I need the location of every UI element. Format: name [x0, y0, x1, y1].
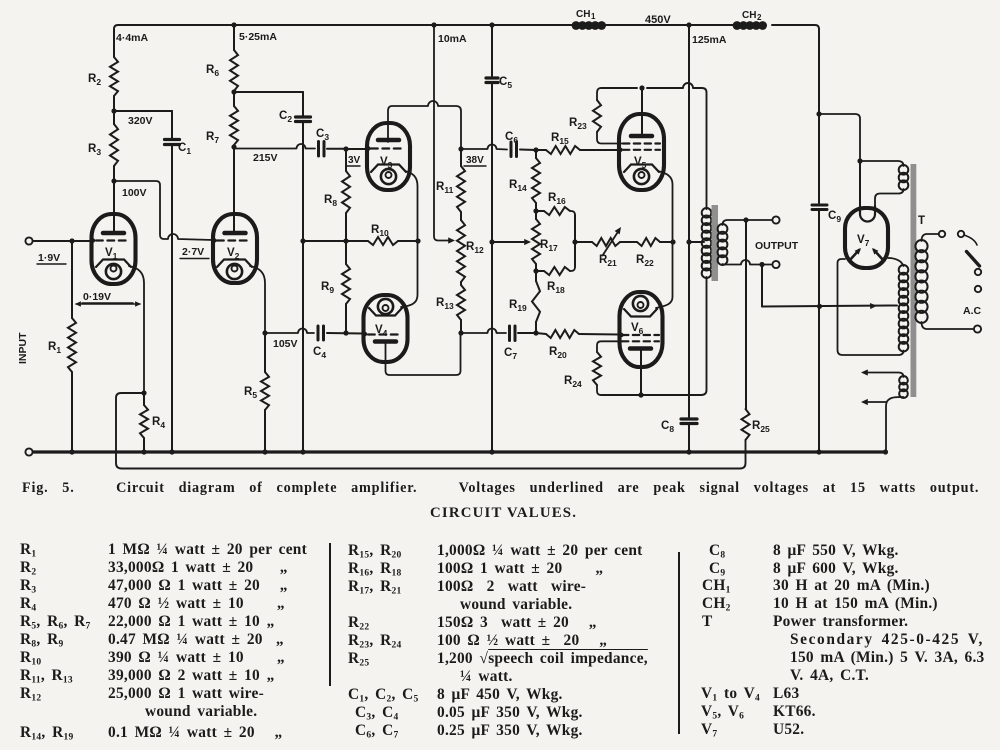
svg-text:1·9V: 1·9V	[38, 252, 60, 264]
svg-text:R21: R21	[599, 254, 617, 268]
transformer OPT primary winding	[702, 208, 712, 278]
wire V3 cathode to common node	[405, 171, 418, 241]
resistor R24 (screen stopper)	[564, 341, 622, 395]
node 100V junction	[111, 178, 146, 199]
svg-text:38V: 38V	[466, 155, 484, 166]
switch contact a	[939, 231, 945, 237]
transformer T label	[918, 215, 925, 227]
svg-text:CH: CH	[576, 9, 590, 20]
wire bias network to R21	[572, 215, 592, 267]
svg-text:5·25mA: 5·25mA	[239, 31, 277, 43]
transformer OPT core	[712, 205, 719, 281]
tube V6 screen grid	[622, 340, 659, 342]
tube V2 envelope	[213, 214, 257, 283]
wire V7 left anode to HV winding bottom	[838, 259, 904, 355]
wire V4 cathode to common node	[401, 241, 418, 307]
tube V4 label	[375, 324, 388, 338]
resistor R5	[244, 333, 269, 452]
resistor R7	[206, 106, 238, 147]
svg-text:R20: R20	[549, 346, 567, 360]
svg-text:10mA: 10mA	[438, 33, 467, 45]
wire V1 anode to 100V node	[113, 181, 115, 231]
transformer T 5V rectifier winding	[899, 165, 909, 190]
resistor R8	[324, 149, 350, 241]
resistor R11	[436, 146, 465, 212]
node V4 anode junction	[458, 330, 463, 335]
svg-text:C8: C8	[661, 420, 674, 434]
resistor R18	[536, 267, 575, 295]
label INPUT	[17, 332, 29, 364]
wire 100V node to V2 grid (direct coupling, hops C1 line)	[114, 181, 213, 240]
svg-text:C2: C2	[279, 110, 292, 124]
svg-text:R11: R11	[436, 181, 454, 195]
svg-text:R16: R16	[548, 192, 566, 206]
tube V2 anode	[225, 231, 246, 236]
svg-text:1: 1	[591, 12, 596, 21]
resistor R1	[48, 241, 76, 452]
transformer T core	[911, 164, 917, 397]
resistor R4	[140, 390, 165, 452]
node 38V label	[464, 155, 486, 166]
svg-text:A.C: A.C	[963, 305, 982, 317]
wire 10mA HT feed to R12 wiper	[431, 22, 467, 243]
tube V5 cathode	[624, 165, 659, 185]
svg-text:R1: R1	[48, 341, 61, 355]
label OUTPUT	[755, 240, 799, 252]
wire 450V to output transformer centre tap	[686, 22, 726, 417]
wire V4 anode loop to R13 node	[386, 333, 461, 375]
node 105V junction	[262, 330, 297, 350]
node 1.9V label	[37, 252, 66, 264]
svg-text:C5: C5	[499, 76, 512, 90]
svg-text:105V: 105V	[273, 338, 298, 350]
tube V3 anode	[378, 138, 399, 143]
transformer OPT secondary winding	[718, 224, 728, 265]
input terminal lower	[25, 448, 32, 455]
tube V7 anodes	[849, 248, 884, 261]
resistor R10	[303, 224, 418, 245]
svg-text:CH: CH	[742, 10, 756, 21]
tube V2 grid	[212, 238, 251, 242]
node 320V junction	[111, 108, 152, 127]
node R9 to V4 grid junction	[343, 330, 348, 335]
svg-text:R15: R15	[551, 132, 569, 146]
resistor R9	[321, 241, 350, 333]
output terminal top	[772, 216, 779, 223]
capacitor C9	[812, 114, 841, 452]
wire V7 right anode to HV winding top	[888, 258, 904, 266]
svg-text:R5: R5	[244, 386, 257, 400]
resistor R19	[509, 271, 540, 333]
label A.C	[963, 305, 982, 317]
tube V1 grid	[91, 238, 130, 242]
wire feedback return to V1 cathode network	[116, 393, 746, 469]
node R6-R7 junction	[231, 89, 236, 106]
svg-text:V7: V7	[857, 234, 870, 248]
svg-text:R23: R23	[569, 117, 587, 131]
resistor R15	[536, 132, 619, 154]
transformer T heater winding	[899, 376, 908, 398]
svg-text:R9: R9	[321, 281, 334, 295]
svg-text:R13: R13	[436, 297, 454, 311]
svg-text:R2: R2	[88, 73, 101, 87]
svg-text:R3: R3	[88, 143, 101, 157]
wire heater winding lead bottom	[861, 397, 904, 452]
svg-text:R14: R14	[509, 179, 527, 193]
resistor R12 (wirewound variable)	[457, 212, 484, 282]
resistor R13	[436, 282, 465, 333]
wire primary to mains switch	[922, 234, 939, 241]
node cathode bias junction	[670, 239, 675, 244]
tube V6 control grid	[619, 333, 659, 337]
tube V3 cathode	[371, 165, 406, 185]
choke CH1	[572, 9, 606, 30]
svg-text:215V: 215V	[253, 152, 278, 164]
resistor R23 (screen stopper)	[569, 88, 622, 144]
tube V6 anode	[630, 346, 651, 351]
resistor R17 (hum balance variable)	[532, 208, 558, 273]
wire V6 cathode to common cathode line	[656, 242, 673, 308]
wire switch lead	[964, 235, 977, 245]
wire V2 cathode to 105V node	[250, 266, 265, 333]
svg-text:450V: 450V	[645, 14, 671, 26]
tube V1 envelope	[92, 214, 136, 284]
tube V7 envelope (rectifier)	[845, 208, 888, 268]
terminal AC input	[974, 325, 981, 332]
resistor R3	[88, 111, 118, 181]
choke CH2	[733, 10, 767, 30]
wire secondary to output terminal top	[723, 217, 773, 225]
svg-text:C1: C1	[178, 142, 191, 156]
wire HT to 5V winding	[819, 114, 904, 166]
capacitor C2	[234, 92, 311, 452]
svg-text:C9: C9	[828, 210, 841, 224]
wire R6 top with 5.25mA label	[234, 25, 277, 50]
wire ground return rail	[33, 449, 888, 454]
wire mains primary bottom to AC terminal	[922, 322, 974, 329]
resistor R2	[88, 57, 118, 111]
resistor R25 (feedback)	[742, 409, 771, 440]
tube V1 anode	[103, 231, 124, 236]
wire V1 cathode to R4	[129, 266, 144, 393]
transformer T HV secondary winding	[899, 265, 909, 352]
capacitor C3	[234, 128, 346, 156]
svg-text:2·7V: 2·7V	[182, 246, 204, 258]
wire 5V winding to V7 filament	[860, 161, 904, 214]
tube V1 cathode	[96, 260, 131, 280]
resistor R6	[206, 50, 238, 91]
resistor R21 (variable)	[592, 227, 621, 268]
transformer T mains primary winding	[915, 240, 927, 323]
svg-text:C3: C3	[316, 128, 329, 142]
tube V3 envelope	[367, 123, 410, 190]
input terminal	[25, 237, 92, 244]
svg-text:R18: R18	[547, 281, 565, 295]
svg-text:V4: V4	[375, 324, 388, 338]
svg-text:R17: R17	[540, 239, 558, 253]
svg-text:125mA: 125mA	[692, 34, 727, 46]
tube V2 cathode	[217, 260, 252, 280]
node 0.19V annotation	[75, 291, 141, 307]
svg-text:320V: 320V	[128, 115, 153, 127]
svg-text:2: 2	[757, 13, 762, 22]
switch terminal c	[975, 269, 981, 275]
tube V4 anode	[375, 339, 396, 344]
svg-text:R7: R7	[206, 131, 219, 145]
wire output common to HV centre tap	[762, 265, 897, 310]
svg-text:C7: C7	[504, 347, 517, 361]
svg-text:4·4mA: 4·4mA	[116, 32, 149, 44]
wire HT feed to R2 with 4.4mA label	[114, 29, 149, 57]
resistor R14	[509, 150, 540, 211]
svg-text:R12: R12	[466, 241, 484, 255]
svg-text:R24: R24	[564, 375, 582, 389]
tube V6 cathode (inverted)	[624, 296, 657, 317]
wire CH2 output down to reservoir	[816, 29, 821, 117]
capacitor C7	[461, 326, 536, 361]
resistor R16	[536, 192, 575, 215]
node V3/V4 cathode junction	[415, 238, 420, 243]
node V1 grid junction	[69, 238, 74, 243]
tube V4 envelope	[364, 295, 408, 362]
tube V6 envelope	[620, 292, 663, 367]
svg-text:R10: R10	[371, 224, 389, 238]
svg-text:R6: R6	[206, 64, 219, 78]
wire V3 anode to 38V node (hops 10mA line)	[388, 101, 461, 149]
wire R17 wiper to ground line	[489, 239, 531, 245]
svg-text:C4: C4	[313, 346, 326, 360]
tube V4 grid	[363, 332, 402, 336]
tube V5 envelope	[619, 114, 664, 190]
svg-text:R22: R22	[636, 254, 654, 268]
svg-text:OUTPUT: OUTPUT	[755, 240, 799, 252]
svg-text:T: T	[918, 215, 925, 227]
capacitor C6	[461, 131, 536, 157]
node V5 grid network junction	[533, 147, 538, 152]
resistor R22	[620, 238, 673, 268]
svg-text:R19: R19	[509, 299, 527, 313]
tube V3 grid	[366, 146, 405, 150]
wire V5 cathode to common cathode line	[658, 171, 673, 242]
svg-text:100V: 100V	[122, 187, 147, 199]
wire V6 anode to output transformer primary	[601, 277, 707, 398]
tube V5 label	[634, 156, 647, 170]
tube V7 filament	[860, 206, 875, 222]
svg-text:INPUT: INPUT	[17, 332, 29, 364]
wire V2 anode	[233, 147, 235, 231]
node HT rail junction R6	[231, 22, 236, 27]
wire secondary to output terminal bottom (hops feedback line)	[723, 260, 773, 267]
switch terminal d	[975, 286, 981, 292]
node V2 anode 215V junction	[231, 144, 277, 164]
capacitor C1	[114, 111, 191, 452]
tube V2 label	[227, 247, 240, 261]
tube V4 cathode (inverted)	[369, 299, 402, 316]
wire heater winding lead top	[861, 369, 904, 377]
switch blade	[967, 252, 980, 267]
tube V5 screen grid	[623, 142, 660, 144]
svg-text:0·19V: 0·19V	[83, 291, 111, 303]
capacitor C4	[265, 326, 363, 360]
tube V5 anode	[631, 134, 652, 139]
resistor R20	[536, 330, 620, 360]
switch contact b	[958, 231, 964, 237]
node 2.7V label	[180, 246, 209, 259]
node V3 grid junction 3V	[343, 146, 367, 166]
tube V1 label	[105, 247, 118, 261]
svg-text:R25: R25	[752, 420, 770, 434]
output terminal bottom	[772, 261, 779, 268]
capacitor C5	[486, 22, 512, 452]
wire top HT supply rail	[114, 25, 819, 29]
svg-text:3V: 3V	[348, 155, 361, 166]
tube V3 label	[380, 156, 393, 170]
wire V5 anode to output transformer primary (hops 450V line)	[601, 83, 707, 209]
tube V7 label	[857, 234, 870, 248]
svg-text:C6: C6	[505, 131, 518, 145]
capacitor C8	[661, 419, 697, 452]
tube V6 label	[631, 322, 644, 336]
node V6 grid network junction	[533, 330, 538, 335]
svg-text:R8: R8	[324, 194, 337, 208]
node 450V label	[645, 14, 671, 26]
svg-text:R4: R4	[152, 416, 165, 430]
wire feedback tap from output	[745, 220, 747, 409]
tube V5 control grid	[618, 148, 660, 152]
